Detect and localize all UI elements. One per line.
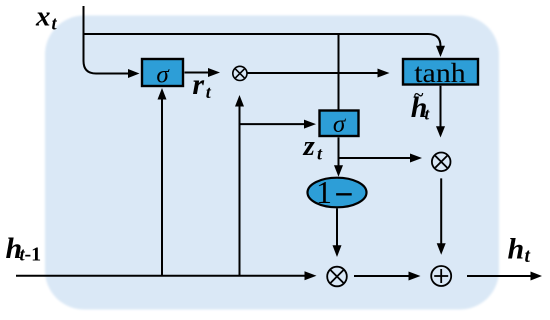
- arrow: reset gate to reset multiply node: [185, 72, 209, 74]
- label h_{t-1}: [6, 232, 42, 265]
- arrow: h_{t-1} branch into update gate: [240, 123, 305, 125]
- wire: x_t top horizontal bus to tanh elbow: [84, 34, 441, 46]
- wire: x_t input vertical with elbow into reset gate: [84, 6, 129, 74]
- svg-text:-1: -1: [25, 244, 42, 266]
- add node: [431, 266, 451, 286]
- arrow: one-minus down to bottom multiply: [336, 208, 338, 245]
- cell background: [45, 16, 499, 310]
- svg-text:t: t: [525, 246, 531, 267]
- svg-text:t: t: [52, 15, 58, 35]
- svg-text:σ: σ: [156, 62, 170, 89]
- label h_t: [508, 233, 531, 267]
- wire: candidate multiply down to add node (with gap below circle): [440, 178, 442, 243]
- svg-text:σ: σ: [333, 111, 347, 138]
- label r_t: [192, 68, 211, 102]
- bottom h_{t-1} bus wire: [16, 275, 305, 277]
- label z_t: [303, 130, 324, 163]
- multiply node (right, candidate x update): [432, 153, 451, 172]
- arrow: bottom multiply to add node: [354, 275, 409, 277]
- label h~_t (candidate state): [411, 85, 431, 125]
- output arrow to h_t: [467, 275, 531, 277]
- svg-text:x: x: [35, 1, 51, 33]
- vertical wire from bus up toward reset multiply: [239, 107, 241, 276]
- svg-text:h: h: [508, 233, 525, 266]
- arrow: update gate down to one-minus: [338, 137, 340, 165]
- wire: update branch right to candidate multiply: [339, 157, 411, 159]
- multiply node (bottom): [327, 267, 347, 287]
- vertical wire from top bus down to update gate: [338, 34, 340, 110]
- sigmoid gate box (reset): [142, 59, 183, 89]
- label x_t: [35, 1, 58, 35]
- svg-text:tanh: tanh: [414, 58, 466, 88]
- arrow: tanh down to right multiply node: [440, 86, 442, 127]
- wire: reset multiply to tanh: [247, 72, 378, 74]
- multiply node (reset): [233, 66, 247, 80]
- one-minus ellipse: [308, 174, 367, 212]
- svg-text:1−: 1−: [316, 174, 353, 212]
- svg-text:z: z: [303, 130, 316, 162]
- tanh box: [403, 58, 478, 88]
- update gate sigmoid box: [320, 111, 359, 138]
- vertical wire from bus up into reset gate: [161, 100, 163, 276]
